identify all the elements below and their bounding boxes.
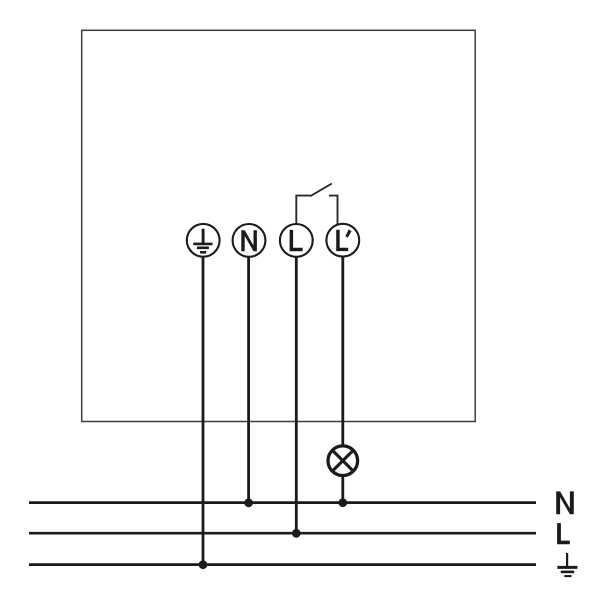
junction: lamp wire to N bus (338, 498, 347, 507)
earth symbol (PE bus label) (557, 553, 577, 576)
junction: PE wire to PE bus (199, 560, 208, 569)
label L (mains live) (557, 523, 570, 544)
junction: N wire to N bus (244, 498, 253, 507)
terminal PE (earth terminal circle) (187, 224, 220, 257)
wire: L' terminal down to lamp (341, 257, 344, 445)
wire: PE terminal down to PE bus (202, 257, 205, 565)
terminal L' (326, 224, 359, 257)
junction: L wire to L bus (292, 529, 301, 538)
terminal N (233, 224, 266, 257)
device box (sensor/switch unit outline) (82, 30, 476, 421)
label N (mains neutral) (556, 491, 574, 514)
bus line L (mains live) (29, 532, 536, 535)
lamp E1 (load, circle with cross) (328, 446, 358, 476)
bus line PE (mains earth) (29, 563, 536, 566)
terminal L (280, 224, 313, 257)
switch S1 (internal contact between L and L') (296, 184, 337, 226)
wire: L terminal down to L bus (295, 257, 298, 533)
wire: N terminal down to N bus (247, 257, 250, 503)
bus line N (mains neutral) (29, 501, 536, 504)
wire: lamp down to N bus (341, 477, 344, 503)
